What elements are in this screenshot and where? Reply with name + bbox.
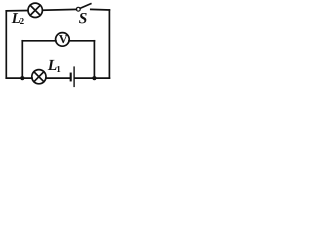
wire top-mid segment (lamp L2 to switch) [43,8,77,11]
wire right vertical [108,10,110,78]
switch S [76,4,90,11]
lamp L2 [28,3,42,17]
battery cell [71,67,74,86]
wire bottom-left segment [6,77,32,79]
wire bottom-right segment (battery to corner) [75,77,110,79]
wire top-left segment [6,10,28,12]
voltmeter U (V) [56,33,70,47]
label L1 [48,60,61,72]
voltmeter letter V [59,35,67,43]
voltmeter branch right vertical [93,41,95,78]
wire top-right segment (switch to corner) [91,8,110,11]
wire bottom-mid segment (lamp L1 to battery) [46,77,70,79]
voltmeter branch right wire [69,40,94,42]
voltmeter branch left wire [22,40,56,42]
node junction dot left [20,76,24,80]
label S [79,13,87,23]
wire left vertical [5,11,7,78]
voltmeter branch left vertical [21,41,23,78]
lamp L1 [32,70,46,84]
node junction dot right [92,76,96,80]
label L2 [12,13,24,24]
